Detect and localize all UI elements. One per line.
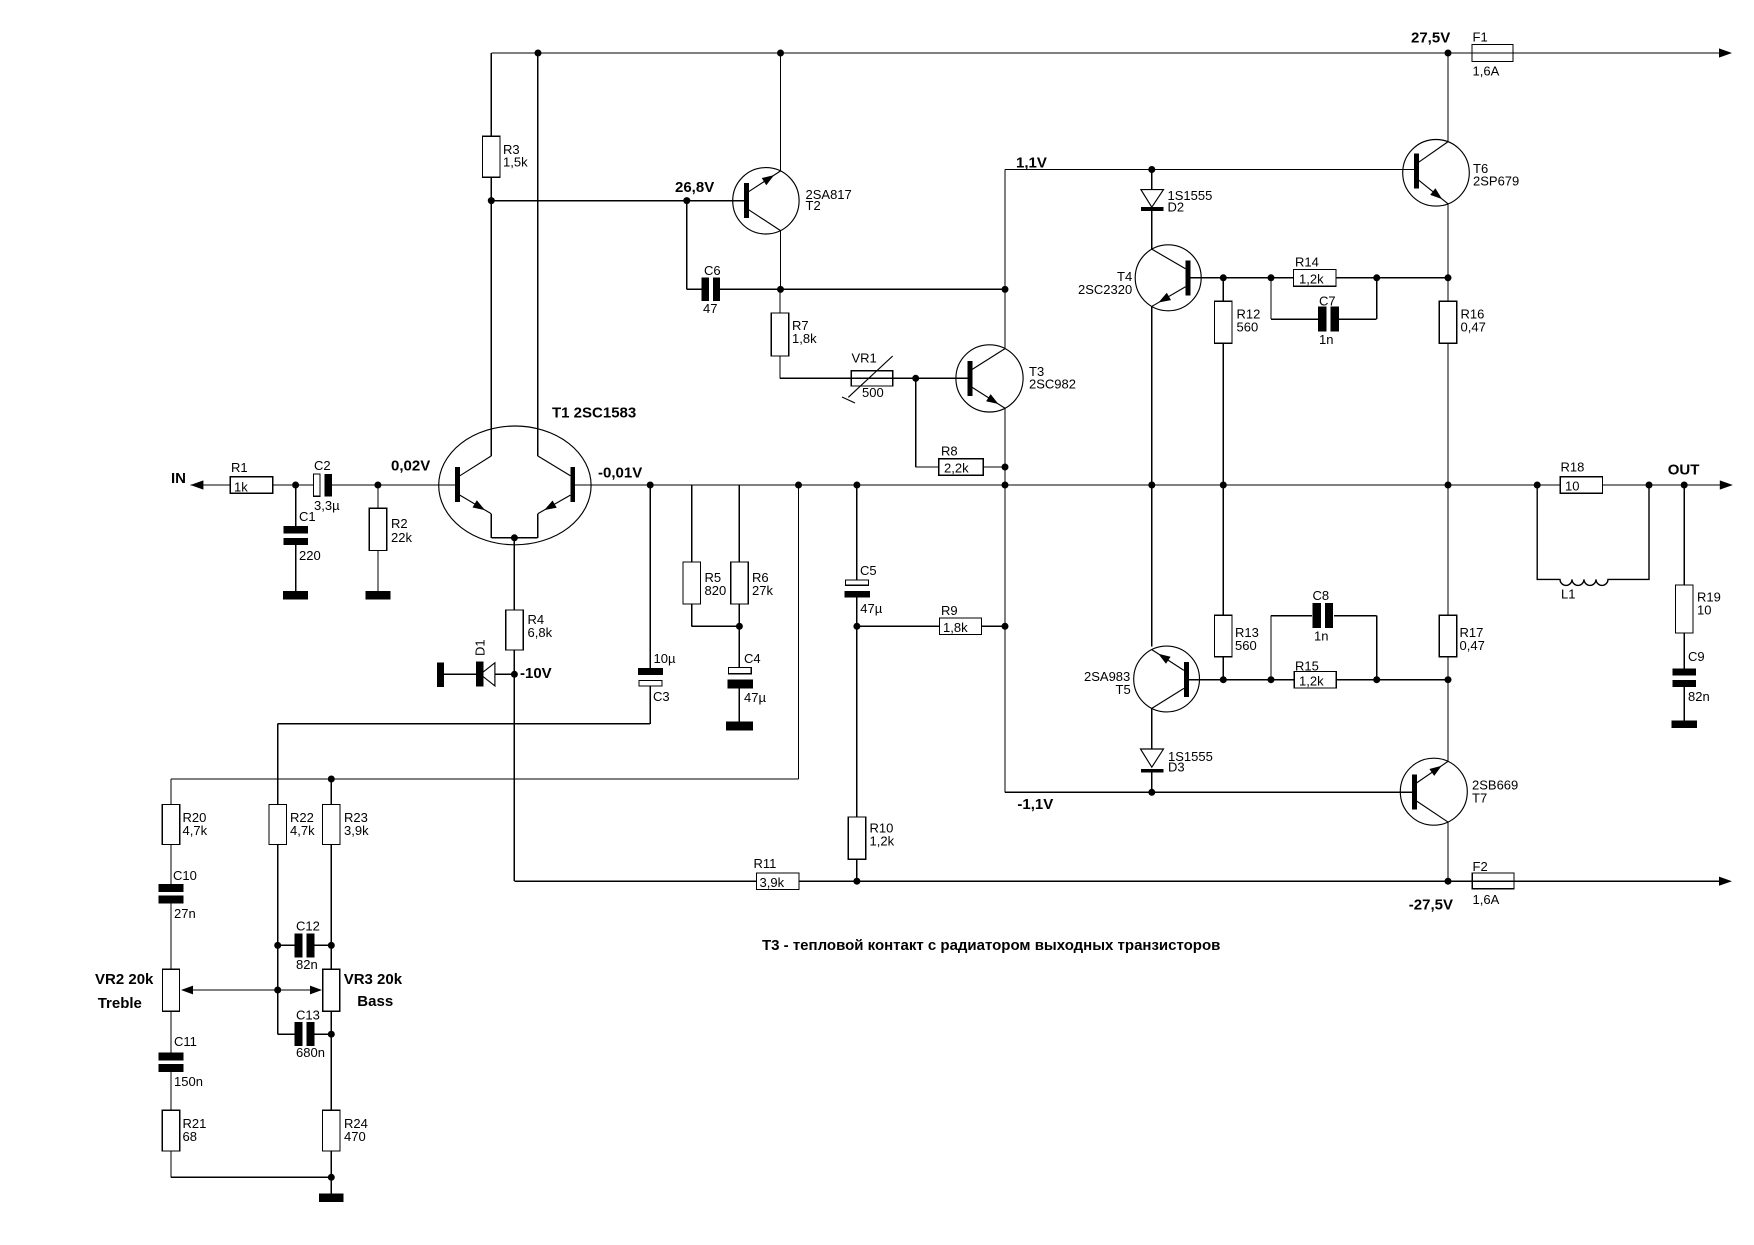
capacitor C9 — [1672, 669, 1696, 688]
label T1 2SC1583 — [552, 405, 636, 422]
label R10 — [870, 821, 894, 836]
junction — [1534, 482, 1541, 489]
wire T4 base — [1190, 277, 1223, 279]
capacitor C13 — [295, 1022, 315, 1046]
wire — [1271, 616, 1312, 680]
junction — [511, 534, 518, 541]
resistor R17 — [1439, 615, 1457, 656]
label R17 — [1460, 625, 1484, 640]
resistor R22 — [269, 805, 287, 845]
label F2 — [1473, 859, 1488, 874]
wire — [738, 604, 740, 668]
capacitor C11 — [159, 1052, 184, 1072]
label C7 — [1319, 294, 1336, 309]
wire T3 emitter down — [1004, 408, 1006, 485]
capacitor C1 — [283, 526, 308, 545]
wire — [314, 944, 331, 946]
junction — [1445, 50, 1452, 57]
svg-text:1,2k: 1,2k — [870, 834, 895, 849]
wire -10V column down — [513, 674, 515, 881]
wire — [295, 545, 297, 591]
wire — [692, 604, 740, 626]
label 3,9k — [760, 875, 785, 890]
label R19 — [1697, 590, 1721, 605]
svg-text:1,6A: 1,6A — [1473, 64, 1500, 79]
svg-text:820: 820 — [705, 583, 727, 598]
svg-text:1,5k: 1,5k — [503, 155, 528, 170]
wire — [295, 485, 297, 526]
wire — [893, 377, 968, 379]
capacitor C4 — [727, 668, 753, 689]
resistor R24 — [323, 1110, 341, 1151]
wire T1 emitter bus — [491, 514, 537, 538]
svg-text:C10: C10 — [173, 868, 197, 883]
wire — [649, 485, 651, 668]
resistor R3 — [483, 136, 501, 177]
resistor R12 — [1215, 301, 1233, 343]
label C12 — [296, 919, 320, 934]
wire input line — [190, 484, 313, 486]
junction — [777, 286, 784, 293]
label Bass — [357, 993, 393, 1010]
wire — [738, 688, 740, 721]
resistor R13 — [1215, 615, 1233, 656]
wire — [1339, 278, 1377, 319]
label 820 — [705, 583, 727, 598]
wire — [686, 201, 688, 290]
wire — [1447, 485, 1449, 615]
junction — [1002, 464, 1009, 471]
transistor T3 — [956, 345, 1023, 412]
label 150n — [174, 1074, 203, 1089]
wire arrowhead +27,5V out — [1719, 48, 1732, 57]
svg-text:Bass: Bass — [357, 993, 393, 1010]
wire — [278, 944, 295, 946]
svg-text:1,8k: 1,8k — [792, 331, 817, 346]
svg-text:680n: 680n — [296, 1045, 325, 1060]
svg-text:C13: C13 — [296, 1008, 320, 1023]
capacitor C10 — [159, 884, 184, 904]
resistor R1 — [230, 477, 272, 494]
wire — [1151, 170, 1153, 190]
node IN label — [171, 470, 186, 487]
wire — [330, 779, 332, 805]
capacitor C3 — [638, 668, 663, 686]
junction — [1220, 676, 1227, 683]
label 1,6A — [1473, 64, 1500, 79]
resistor R9 — [939, 618, 981, 635]
label 27n — [174, 906, 196, 921]
label R3 — [503, 142, 520, 157]
diode D2 — [1141, 190, 1164, 211]
label 82n — [1688, 689, 1710, 704]
wire — [495, 673, 515, 675]
wire — [1222, 343, 1224, 485]
wire — [856, 859, 858, 881]
svg-text:560: 560 — [1235, 638, 1257, 653]
label 47µ — [744, 690, 766, 705]
svg-text:VR3 20k: VR3 20k — [344, 971, 403, 988]
wire — [1223, 679, 1294, 681]
label VR3 20k — [344, 971, 403, 988]
label R4 — [528, 612, 545, 627]
label 47µ — [860, 601, 882, 616]
wire — [170, 844, 172, 884]
fuse F2 — [1472, 873, 1514, 889]
wire — [779, 289, 781, 313]
wire through VR1 — [851, 377, 892, 379]
junction — [1002, 286, 1009, 293]
label 4,7k — [290, 823, 315, 838]
wire — [170, 779, 172, 805]
junction — [647, 482, 654, 489]
label 2SB669 — [1472, 778, 1518, 793]
svg-text:2SC2320: 2SC2320 — [1078, 282, 1132, 297]
label R1 — [231, 460, 248, 475]
wire — [1222, 485, 1224, 615]
wire — [171, 1151, 331, 1177]
resistor R5 — [683, 562, 701, 604]
label D2 — [1168, 200, 1185, 215]
capacitor C7 — [1318, 307, 1339, 332]
label R12 — [1237, 307, 1261, 322]
label R14 — [1295, 255, 1319, 270]
label 1n — [1319, 332, 1333, 347]
wire — [982, 625, 1006, 627]
junction — [912, 375, 919, 382]
junction — [795, 482, 802, 489]
transistor T4 — [1135, 245, 1201, 311]
wire T5 base — [1189, 679, 1224, 681]
diode D3 — [1141, 749, 1164, 773]
junction — [1373, 676, 1380, 683]
diode D1 — [476, 662, 495, 687]
wire — [738, 485, 740, 562]
resistor R21 — [162, 1110, 180, 1151]
wire input arrowhead — [190, 480, 203, 489]
node 27,5V label — [1411, 30, 1450, 47]
potentiometer VR2 — [163, 969, 180, 1011]
junction — [1445, 274, 1452, 281]
capacitor C5 — [845, 580, 871, 597]
label 22k — [391, 530, 412, 545]
wire — [170, 1011, 172, 1052]
label D1 — [473, 639, 488, 656]
svg-text:6,8k: 6,8k — [528, 625, 553, 640]
wire — [720, 288, 1005, 290]
wire — [856, 626, 858, 817]
wire T4 emitter down (through output rail) — [1151, 306, 1153, 646]
wire — [1683, 485, 1685, 585]
junction — [1220, 274, 1227, 281]
svg-text:26,8V: 26,8V — [675, 179, 714, 196]
capacitor C12 — [295, 933, 315, 957]
wire T3 collector up / 1,1V corner — [1004, 170, 1006, 349]
transistor T5 — [1134, 646, 1200, 712]
potentiometer VR3 — [323, 969, 340, 1011]
label C2 — [314, 458, 331, 473]
label R23 — [344, 810, 368, 825]
svg-text:R1: R1 — [231, 460, 248, 475]
junction — [274, 987, 281, 994]
svg-text:3,3µ: 3,3µ — [314, 498, 340, 513]
svg-text:0,02V: 0,02V — [391, 458, 430, 475]
label 2SA817 — [806, 187, 852, 202]
wire — [278, 844, 295, 1034]
svg-text:D2: D2 — [1168, 200, 1185, 215]
svg-text:3,9k: 3,9k — [344, 823, 369, 838]
label 1n — [1314, 629, 1328, 644]
ground — [1671, 721, 1697, 729]
junction — [328, 942, 335, 949]
inductor L1 — [1537, 485, 1649, 585]
resistor R2 — [369, 508, 387, 550]
resistor R6 — [731, 562, 749, 604]
svg-text:C2: C2 — [314, 458, 331, 473]
svg-text:T5: T5 — [1116, 682, 1131, 697]
svg-text:2SC982: 2SC982 — [1029, 377, 1076, 392]
label 10 — [1697, 603, 1711, 618]
label R15 — [1295, 659, 1319, 674]
wire — [332, 484, 455, 486]
junction — [777, 50, 784, 57]
junction — [853, 623, 860, 630]
label 6,8k — [528, 625, 553, 640]
wire feedback to tone stack — [278, 723, 651, 725]
svg-text:82n: 82n — [296, 957, 318, 972]
wire — [170, 904, 172, 970]
wire bottom rail — [514, 880, 1721, 882]
label F1 — [1473, 30, 1488, 45]
ground — [726, 722, 753, 731]
svg-text:Т3 - тепловой контакт с радиат: Т3 - тепловой контакт с радиатором выход… — [762, 937, 1220, 954]
svg-text:R18: R18 — [1561, 460, 1585, 475]
wire — [444, 673, 476, 675]
label T2 — [806, 198, 821, 213]
svg-text:10µ: 10µ — [654, 651, 676, 666]
label T7 — [1472, 791, 1487, 806]
label 4,7k — [183, 823, 208, 838]
wire 1,1V row — [1005, 169, 1414, 171]
wire — [1222, 278, 1224, 302]
junction — [328, 1031, 335, 1038]
wire — [983, 466, 1005, 468]
label 1S1555 — [1168, 749, 1213, 764]
svg-text:C9: C9 — [1688, 649, 1705, 664]
capacitor C6 — [702, 278, 720, 302]
node 26,8V label — [675, 179, 714, 196]
label 2,2k — [944, 461, 969, 476]
junction — [683, 197, 690, 204]
wire T2 collector down — [780, 230, 782, 289]
svg-text:10: 10 — [1565, 479, 1579, 494]
svg-text:1n: 1n — [1319, 332, 1333, 347]
resistor R16 — [1439, 301, 1457, 343]
wire T7 emitter up — [1447, 680, 1449, 762]
svg-text:C8: C8 — [1313, 588, 1330, 603]
svg-text:1,1V: 1,1V — [1016, 155, 1047, 172]
label R5 — [705, 570, 722, 585]
node -10V label — [520, 665, 552, 682]
resistor R23 — [323, 805, 341, 845]
wire — [691, 485, 693, 562]
wire — [314, 1033, 331, 1035]
node -0,01V label — [598, 465, 642, 482]
wire -1,1V row — [1005, 791, 1412, 793]
label C11 — [174, 1034, 197, 1049]
wire — [798, 485, 800, 779]
label C8 — [1313, 588, 1330, 603]
resistor R14 — [1294, 270, 1336, 287]
label R22 — [290, 810, 314, 825]
svg-text:1,6A: 1,6A — [1473, 892, 1500, 907]
wire — [857, 625, 940, 627]
transistor T6 — [1403, 140, 1470, 207]
svg-text:220: 220 — [299, 548, 321, 563]
wire — [1683, 687, 1685, 721]
wire — [1004, 485, 1006, 792]
label 1,8k — [792, 331, 817, 346]
wire VR3 wiper — [310, 986, 322, 995]
svg-text:68: 68 — [183, 1129, 197, 1144]
junction — [1268, 274, 1275, 281]
svg-text:47µ: 47µ — [744, 690, 766, 705]
label 560 — [1235, 638, 1257, 653]
wire — [330, 844, 332, 969]
resistor R4 — [506, 610, 524, 650]
junction — [328, 776, 335, 783]
wire — [1334, 616, 1377, 680]
junction — [292, 482, 299, 489]
wire — [1683, 633, 1685, 669]
wire — [1271, 278, 1318, 319]
label 1,6A — [1473, 892, 1500, 907]
label R16 — [1461, 307, 1485, 322]
junction — [535, 50, 542, 57]
wire — [856, 597, 858, 626]
ground — [319, 1194, 344, 1202]
label 1,8k — [943, 620, 968, 635]
wire — [490, 53, 492, 136]
node -1,1V label — [1017, 796, 1053, 813]
wire — [780, 356, 851, 378]
label 1,2k — [870, 834, 895, 849]
svg-text:VR2 20k: VR2 20k — [95, 971, 154, 988]
svg-text:R14: R14 — [1295, 255, 1319, 270]
svg-text:560: 560 — [1237, 320, 1259, 335]
svg-text:-27,5V: -27,5V — [1409, 897, 1453, 914]
label C5 — [860, 563, 877, 578]
transistor T2 — [733, 168, 799, 234]
svg-text:-10V: -10V — [520, 665, 552, 682]
label R21 — [183, 1116, 207, 1131]
junction — [274, 942, 281, 949]
transistor T7 — [1400, 758, 1467, 825]
junction — [1445, 482, 1452, 489]
label R24 — [344, 1116, 368, 1131]
svg-text:T1 2SC1583: T1 2SC1583 — [552, 405, 636, 422]
transistor T1 left half — [455, 456, 491, 514]
svg-text:2SP679: 2SP679 — [1473, 174, 1519, 189]
wire T6 collector to rail — [1447, 53, 1449, 142]
label 10µ — [654, 651, 676, 666]
fuse F1 — [1472, 44, 1513, 61]
wire to T2 base — [491, 200, 744, 202]
label 2SA983 — [1084, 669, 1130, 684]
node 1,1V label — [1016, 155, 1047, 172]
label 500 — [862, 385, 884, 400]
junction — [736, 623, 743, 630]
wire — [1447, 343, 1449, 485]
label 0,47 — [1461, 320, 1486, 335]
svg-text:C7: C7 — [1319, 294, 1336, 309]
transistor T1 package — [439, 426, 591, 545]
svg-text:27,5V: 27,5V — [1411, 30, 1450, 47]
label R6 — [752, 570, 769, 585]
svg-text:R15: R15 — [1295, 659, 1319, 674]
svg-text:C6: C6 — [704, 263, 721, 278]
label L1 — [1561, 587, 1575, 602]
label 2SC982 — [1029, 377, 1076, 392]
label 82n — [296, 957, 318, 972]
label T6 — [1473, 161, 1488, 176]
svg-text:C12: C12 — [296, 919, 320, 934]
wire — [170, 1072, 172, 1111]
wire — [1447, 657, 1449, 680]
label D3 — [1168, 760, 1185, 775]
label C13 — [296, 1008, 320, 1023]
note text — [762, 937, 1220, 954]
wire — [1336, 679, 1448, 681]
junction — [1268, 676, 1275, 683]
wire — [330, 1151, 332, 1194]
label T5 — [1116, 682, 1131, 697]
ground — [366, 591, 391, 599]
svg-text:F1: F1 — [1473, 30, 1488, 45]
wire — [1151, 211, 1153, 249]
junction — [488, 197, 495, 204]
label R18 — [1561, 460, 1585, 475]
label 1,5k — [503, 155, 528, 170]
svg-text:10: 10 — [1697, 603, 1711, 618]
svg-text:T2: T2 — [806, 198, 821, 213]
svg-text:47µ: 47µ — [860, 601, 882, 616]
junction — [1002, 623, 1009, 630]
wire output arrowhead — [1720, 480, 1733, 489]
resistor R10 — [848, 817, 866, 859]
label R20 — [183, 810, 207, 825]
label T4 — [1117, 269, 1132, 284]
svg-text:27n: 27n — [174, 906, 196, 921]
svg-text:C3: C3 — [653, 689, 670, 704]
node OUT label — [1668, 462, 1700, 479]
label R9 — [941, 603, 958, 618]
wire — [513, 650, 515, 674]
label C6 — [704, 263, 721, 278]
wire — [277, 724, 279, 805]
label VR1 — [852, 351, 877, 366]
label R13 — [1235, 625, 1259, 640]
wire +27,5V top rail — [491, 52, 1721, 54]
label 68 — [183, 1129, 197, 1144]
svg-text:C11: C11 — [174, 1034, 197, 1049]
wire — [377, 550, 379, 591]
wire — [513, 538, 515, 610]
label 0,47 — [1460, 638, 1485, 653]
wire — [916, 378, 939, 467]
wire T2 emitter to rail — [780, 53, 782, 171]
label VR2 20k — [95, 971, 154, 988]
